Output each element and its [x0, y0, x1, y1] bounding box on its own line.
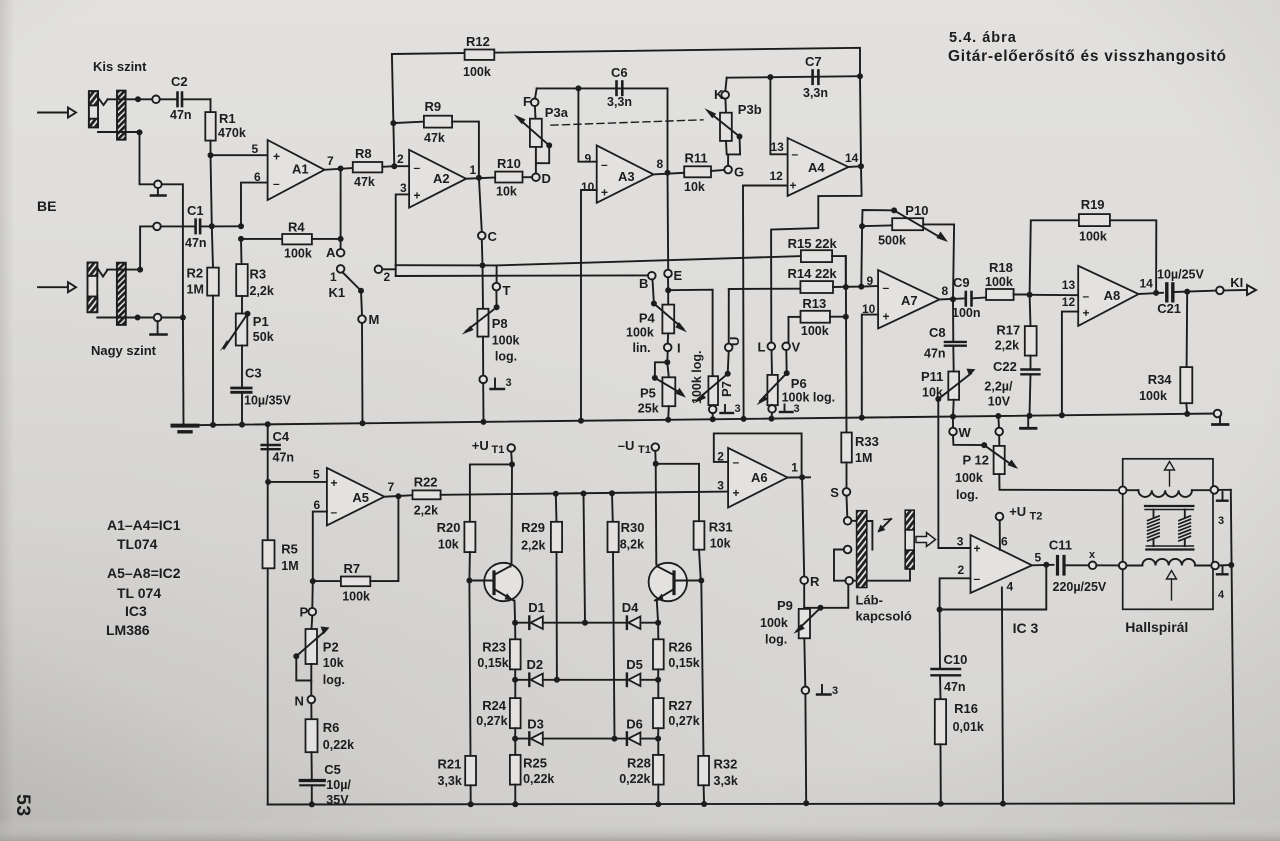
wire A1 out down to R4 and K1 — [340, 169, 342, 249]
resistor R21 — [438, 581, 477, 808]
svg-text:R33: R33 — [855, 434, 879, 449]
resistor R27 — [653, 680, 700, 739]
svg-text:R31: R31 — [709, 520, 733, 535]
svg-text:0,15k: 0,15k — [477, 656, 508, 670]
svg-text:T: T — [503, 283, 511, 298]
svg-text:53: 53 — [12, 794, 34, 817]
svg-text:7: 7 — [388, 480, 395, 494]
resistor R23 — [477, 623, 520, 680]
supply node +UT1 — [470, 438, 515, 564]
svg-text:+: + — [733, 486, 740, 500]
svg-text:100n: 100n — [952, 306, 981, 320]
svg-text:I: I — [677, 341, 681, 356]
resistor R28 — [619, 739, 663, 808]
reverb output coil — [1119, 559, 1219, 569]
svg-text:0,27k: 0,27k — [476, 714, 507, 728]
resistor R4 — [241, 220, 341, 261]
svg-text:100k: 100k — [760, 616, 788, 630]
svg-text:–U: –U — [618, 438, 635, 453]
wire IC3 pin2 loop — [940, 578, 971, 609]
svg-text:A: A — [326, 245, 336, 260]
wire down to A2 pin2 — [392, 123, 395, 166]
junction dot sleeve — [137, 129, 143, 135]
svg-text:P10: P10 — [905, 203, 928, 218]
wire A7 pin10 down to bus — [862, 315, 878, 418]
svg-text:5: 5 — [252, 142, 259, 156]
junction dot C1 line R2 column — [209, 223, 215, 229]
svg-text:TL 074: TL 074 — [117, 585, 161, 601]
potentiometer P11 — [921, 346, 976, 417]
reverb right vertical to rail — [1231, 490, 1234, 804]
svg-text:4: 4 — [1007, 580, 1014, 594]
wire A6 pin2 feedback loop — [714, 433, 802, 477]
svg-text:2: 2 — [397, 152, 404, 166]
svg-text:P9: P9 — [777, 598, 793, 613]
svg-text:D: D — [542, 171, 551, 186]
svg-text:R4: R4 — [288, 220, 305, 235]
svg-text:R6: R6 — [323, 720, 340, 735]
svg-text:9: 9 — [867, 274, 874, 288]
svg-text:IC 3: IC 3 — [1013, 620, 1039, 636]
wire R1 node down to C1 line — [211, 155, 212, 226]
svg-text:P1: P1 — [253, 314, 269, 329]
wire C6 line left — [537, 87, 668, 89]
terminal circle P12 top — [995, 416, 1003, 446]
node V — [782, 340, 800, 377]
svg-text:–: – — [883, 281, 890, 295]
wire A4 pin13 up to C7 — [770, 77, 787, 154]
svg-text:5: 5 — [313, 468, 320, 482]
op-amp A1 — [252, 140, 335, 200]
wire A4 out staircase to node L — [771, 166, 862, 342]
svg-text:3: 3 — [1218, 515, 1224, 527]
diode D6 — [626, 717, 658, 745]
svg-text:P2: P2 — [323, 640, 339, 655]
svg-text:0,15k: 0,15k — [668, 656, 699, 670]
svg-text:3,3k: 3,3k — [714, 774, 738, 788]
junction dot A2 out — [476, 175, 482, 181]
node U — [725, 337, 742, 377]
svg-text:Kis szint: Kis szint — [93, 59, 147, 74]
svg-text:T1: T1 — [638, 444, 651, 456]
svg-text:C5: C5 — [324, 762, 341, 777]
svg-text:TL074: TL074 — [117, 536, 158, 552]
svg-text:C21: C21 — [1157, 301, 1181, 316]
capacitor C5 — [300, 762, 351, 807]
svg-text:A1–A4=IC1: A1–A4=IC1 — [107, 517, 181, 533]
wire A4 pin12 down to bus — [743, 186, 788, 420]
junction dot A5 pin5 — [265, 479, 271, 485]
svg-text:1M: 1M — [855, 451, 872, 465]
svg-text:0,22k: 0,22k — [523, 772, 554, 786]
svg-text:+: + — [974, 542, 981, 556]
svg-text:Láb-: Láb- — [856, 593, 883, 608]
resistor R19 — [1030, 197, 1157, 295]
svg-text:P3b: P3b — [738, 102, 762, 117]
svg-text:A5: A5 — [352, 490, 369, 505]
svg-text:C8: C8 — [929, 325, 946, 340]
svg-text:D3: D3 — [527, 717, 544, 732]
svg-text:10: 10 — [581, 180, 595, 194]
svg-text:R18: R18 — [989, 260, 1013, 275]
diode D1 — [512, 600, 585, 629]
wire C7 right down to A4 out — [860, 76, 861, 166]
svg-text:P11: P11 — [921, 369, 943, 384]
supply node +UT2 — [996, 504, 1043, 550]
svg-text:–: – — [414, 161, 421, 175]
svg-text:47k: 47k — [354, 175, 375, 189]
junction dot sleeve bottom — [135, 315, 141, 321]
svg-text:10k: 10k — [710, 537, 731, 551]
node P — [300, 581, 317, 619]
svg-text:5.4. ábra: 5.4. ábra — [949, 30, 1017, 46]
svg-text:6: 6 — [1001, 535, 1008, 549]
svg-text:C2: C2 — [171, 74, 188, 89]
svg-text:3: 3 — [832, 685, 838, 697]
svg-text:BE: BE — [37, 198, 56, 214]
svg-text:R5: R5 — [281, 542, 298, 557]
svg-text:C4: C4 — [273, 429, 290, 444]
junction dot R34 top — [1184, 289, 1190, 295]
op-amp A6 — [717, 448, 798, 508]
svg-text:A2: A2 — [433, 171, 450, 186]
page number 53 — [12, 794, 34, 817]
svg-text:100k: 100k — [985, 275, 1013, 289]
junction dot pin9 feed — [858, 284, 864, 290]
svg-text:log.: log. — [323, 673, 345, 687]
svg-text:D6: D6 — [626, 717, 643, 732]
svg-text:9: 9 — [585, 152, 592, 166]
svg-text:R20: R20 — [437, 520, 461, 535]
svg-text:P5: P5 — [640, 386, 656, 401]
svg-text:LM386: LM386 — [106, 622, 150, 638]
svg-text:K: K — [714, 87, 724, 102]
svg-text:R21: R21 — [438, 757, 462, 772]
potentiometer P4 — [626, 290, 687, 355]
wire A1 pin6 — [241, 183, 268, 227]
wire P11 wiper down to IC3 pin3 — [938, 399, 970, 548]
svg-text:100k: 100k — [492, 334, 520, 348]
lower-left frame vertical — [267, 424, 269, 804]
resistor R1 — [205, 99, 246, 155]
resistor R8 — [353, 146, 394, 189]
svg-text:T2: T2 — [1030, 511, 1043, 523]
wire A2 output — [466, 178, 495, 179]
potentiometer P8 — [462, 265, 520, 375]
svg-text:KI: KI — [1230, 275, 1243, 290]
node circle before C2 — [152, 96, 160, 104]
node A and switch K1 — [326, 245, 379, 423]
wire A8 pin12 down to bus — [1062, 312, 1078, 416]
svg-text:P: P — [300, 605, 309, 620]
svg-text:100k: 100k — [801, 324, 829, 338]
potentiometer P1 — [220, 311, 274, 386]
junction dot C6 line — [575, 85, 581, 91]
svg-text:A4: A4 — [808, 160, 825, 175]
op-amp IC3 — [957, 535, 1042, 637]
wire R14 corner down to U — [728, 289, 730, 344]
op-amp A3 — [581, 145, 664, 202]
svg-text:R8: R8 — [355, 146, 372, 161]
svg-text:14: 14 — [1140, 277, 1154, 291]
svg-text:10k: 10k — [323, 656, 344, 670]
resistor R13 — [789, 296, 846, 343]
wire C7 line left and node K — [714, 76, 860, 102]
svg-text:–: – — [792, 147, 799, 161]
reverb input coil — [1119, 486, 1218, 497]
junction dot right D4 — [655, 620, 661, 626]
svg-text:13: 13 — [1062, 278, 1076, 292]
resistor R7 — [310, 496, 399, 603]
svg-text:100k log.: 100k log. — [690, 351, 704, 405]
resistor R18 — [985, 260, 1030, 300]
svg-text:R32: R32 — [714, 757, 738, 772]
diode D4 — [585, 600, 658, 629]
capacitor C10 — [932, 610, 968, 695]
wire R15 feed line — [497, 256, 801, 265]
capacitor C2 — [160, 74, 211, 122]
resistor R12 — [463, 34, 494, 79]
potentiometer P2 — [293, 616, 345, 696]
svg-text:P3a: P3a — [545, 105, 569, 120]
svg-text:R30: R30 — [621, 520, 645, 535]
svg-text:A5–A8=IC2: A5–A8=IC2 — [107, 565, 181, 581]
node G — [724, 165, 744, 180]
input arrow bottom — [38, 282, 76, 292]
svg-text:3,3n: 3,3n — [607, 95, 632, 109]
resistor R26 — [653, 623, 700, 680]
junction dot pin2 node — [937, 607, 943, 613]
node A1 pin5 junction — [208, 152, 214, 158]
svg-text:A8: A8 — [1104, 288, 1121, 303]
svg-text:1: 1 — [330, 270, 337, 284]
wire jack tip to C2 — [108, 98, 153, 100]
svg-text:100k: 100k — [626, 326, 654, 340]
svg-text:C1: C1 — [187, 203, 204, 218]
svg-text:R27: R27 — [668, 698, 692, 713]
svg-text:+: + — [414, 189, 421, 203]
svg-text:7: 7 — [327, 154, 334, 168]
svg-text:3: 3 — [717, 479, 724, 493]
junction dot on BE spine — [180, 315, 186, 321]
resistor R25 — [510, 739, 555, 808]
svg-text:D5: D5 — [626, 657, 643, 672]
svg-text:A6: A6 — [751, 470, 768, 485]
svg-text:R: R — [810, 574, 820, 589]
svg-text:220µ/25V: 220µ/25V — [1053, 580, 1107, 594]
capacitor C6 — [607, 65, 632, 109]
junction dot A8 pin13 node — [1027, 292, 1033, 298]
node X — [1089, 549, 1119, 569]
svg-text:R14 22k: R14 22k — [788, 266, 838, 281]
svg-text:100k log.: 100k log. — [782, 391, 836, 405]
diode D5 — [626, 657, 658, 686]
svg-text:G: G — [734, 165, 744, 180]
wire A3 output — [654, 173, 685, 175]
resistor R14 — [788, 266, 862, 293]
svg-text:–: – — [733, 455, 740, 469]
capacitor C9 — [952, 275, 986, 320]
reverb tank ground 4 — [1217, 562, 1234, 601]
svg-text:8: 8 — [942, 284, 949, 298]
svg-text:R13: R13 — [802, 296, 826, 311]
potentiometer P3a — [514, 105, 569, 173]
ground terminal circle top jack — [154, 181, 162, 189]
potentiometer P12 — [955, 445, 1119, 502]
svg-text:100k: 100k — [1139, 389, 1167, 403]
svg-text:C6: C6 — [611, 65, 628, 80]
capacitor C22 — [984, 359, 1039, 416]
wire A3 pin9 — [578, 88, 596, 161]
svg-text:P8: P8 — [492, 316, 508, 331]
potentiometer P10 — [859, 203, 954, 299]
svg-text:C22: C22 — [993, 359, 1017, 374]
node R — [800, 574, 820, 609]
op-amp A5 — [313, 468, 395, 526]
svg-text:E: E — [674, 268, 683, 283]
svg-text:R22: R22 — [414, 475, 438, 490]
svg-text:+: + — [1083, 306, 1090, 320]
svg-text:P6: P6 — [791, 376, 807, 391]
svg-text:V: V — [792, 340, 801, 355]
svg-text:P 12: P 12 — [963, 453, 990, 468]
svg-text:47n: 47n — [273, 451, 295, 465]
wire A4 output — [848, 165, 861, 168]
wire R15 node down through bus to R33 — [845, 256, 848, 432]
svg-text:10k: 10k — [684, 180, 705, 194]
svg-text:W: W — [959, 425, 972, 440]
resistor R30 — [608, 490, 645, 738]
wire A5 pin6 — [313, 512, 327, 581]
capacitor C3 — [232, 366, 292, 424]
node E — [664, 268, 682, 293]
node circle before C1 — [153, 223, 161, 231]
svg-text:R19: R19 — [1081, 197, 1105, 212]
junction dot tip — [137, 267, 143, 273]
node C — [478, 229, 498, 244]
svg-text:R28: R28 — [627, 756, 651, 771]
svg-text:kapcsoló: kapcsoló — [856, 609, 912, 624]
svg-text:P7: P7 — [719, 381, 734, 397]
node 2 circle — [375, 265, 396, 284]
svg-text:0,27k: 0,27k — [668, 714, 699, 728]
foot switch actuator bar — [857, 511, 867, 588]
svg-text:10µ/25V: 10µ/25V — [1157, 268, 1204, 282]
junction dot A3 out — [665, 170, 671, 176]
reverb arrow bottom — [1167, 571, 1177, 601]
svg-text:10k: 10k — [438, 538, 459, 552]
svg-text:+: + — [883, 310, 890, 324]
svg-text:R26: R26 — [668, 640, 692, 655]
reverb tank ground 3 — [1217, 490, 1231, 527]
svg-text:47n: 47n — [185, 236, 207, 250]
wire A2 pin3 — [396, 194, 409, 265]
resistor R33 — [841, 433, 879, 489]
svg-text:R1: R1 — [219, 111, 236, 126]
node S — [830, 485, 850, 517]
svg-text:10µ/35V: 10µ/35V — [244, 394, 291, 408]
resistor R31 — [694, 520, 733, 581]
svg-text:T1: T1 — [492, 444, 505, 456]
figure title — [948, 30, 1227, 65]
svg-text:log.: log. — [956, 488, 978, 502]
resistor R15 — [788, 236, 846, 287]
svg-text:35V: 35V — [326, 793, 349, 807]
wire node to A8 pin13 — [1030, 294, 1079, 296]
svg-text:0,22k: 0,22k — [619, 772, 650, 786]
junction dot IC3 out — [1043, 562, 1049, 568]
svg-text:–: – — [331, 505, 338, 519]
wire A6 out down to node R — [802, 477, 804, 576]
svg-text:+U: +U — [1009, 504, 1026, 519]
svg-text:2,2k: 2,2k — [414, 504, 438, 518]
svg-text:3,3n: 3,3n — [803, 86, 828, 100]
wire A8 output — [1139, 293, 1163, 294]
svg-text:C: C — [488, 229, 498, 244]
svg-text:C3: C3 — [245, 366, 262, 381]
svg-text:D1: D1 — [528, 600, 545, 615]
svg-text:3,3k: 3,3k — [438, 774, 462, 788]
svg-text:R15 22k: R15 22k — [788, 236, 838, 251]
junction dot C7 right — [857, 73, 863, 79]
svg-text:C10: C10 — [944, 652, 968, 667]
wire A2 pin2 — [394, 165, 409, 167]
op-amp A2 — [397, 150, 477, 208]
svg-text:100k: 100k — [955, 471, 983, 485]
svg-text:3: 3 — [957, 535, 964, 549]
svg-text:25k: 25k — [638, 402, 659, 416]
wire node C vertical — [481, 239, 484, 265]
svg-text:12: 12 — [1062, 295, 1076, 309]
resistor R34 — [1139, 292, 1192, 414]
wire A2 out down to node C — [479, 178, 482, 232]
svg-text:log.: log. — [765, 633, 787, 647]
wire jack sleeve line bottom — [97, 317, 183, 319]
svg-text:6: 6 — [314, 498, 321, 512]
svg-text:D4: D4 — [622, 600, 639, 615]
wire R14 line to node U — [729, 288, 801, 290]
junction dot P8 top — [480, 262, 486, 268]
svg-text:50k: 50k — [253, 330, 274, 344]
junction dot pin4 rail — [1000, 801, 1006, 807]
svg-text:13: 13 — [771, 140, 785, 154]
ground stub below bus at C22 — [1021, 416, 1037, 428]
svg-text:x: x — [1089, 549, 1096, 561]
svg-text:2: 2 — [958, 563, 965, 577]
svg-text:A3: A3 — [618, 169, 635, 184]
resistor R29 — [521, 491, 562, 680]
terminal circle P9 bottom with ground 3 — [802, 685, 839, 806]
svg-text:47n: 47n — [924, 347, 946, 361]
svg-text:N: N — [295, 694, 304, 709]
svg-text:R3: R3 — [250, 267, 267, 282]
svg-text:–: – — [974, 572, 981, 586]
svg-text:100k: 100k — [463, 65, 491, 79]
wire dry line 2 to node B — [396, 274, 648, 277]
wire to A5 pin5 — [268, 481, 327, 483]
svg-text:0,22k: 0,22k — [323, 738, 354, 752]
junction dot R14 R15 join — [843, 284, 849, 290]
junction dot R4 left — [238, 236, 244, 242]
node N — [295, 694, 316, 709]
svg-text:500k: 500k — [878, 234, 906, 248]
svg-text:R24: R24 — [482, 698, 507, 713]
node F — [523, 88, 539, 109]
svg-text:C11: C11 — [1049, 538, 1072, 553]
junction dot A7 out — [950, 296, 956, 302]
junction dot R30 column D3 — [612, 736, 618, 742]
potentiometer P3b — [705, 99, 762, 166]
